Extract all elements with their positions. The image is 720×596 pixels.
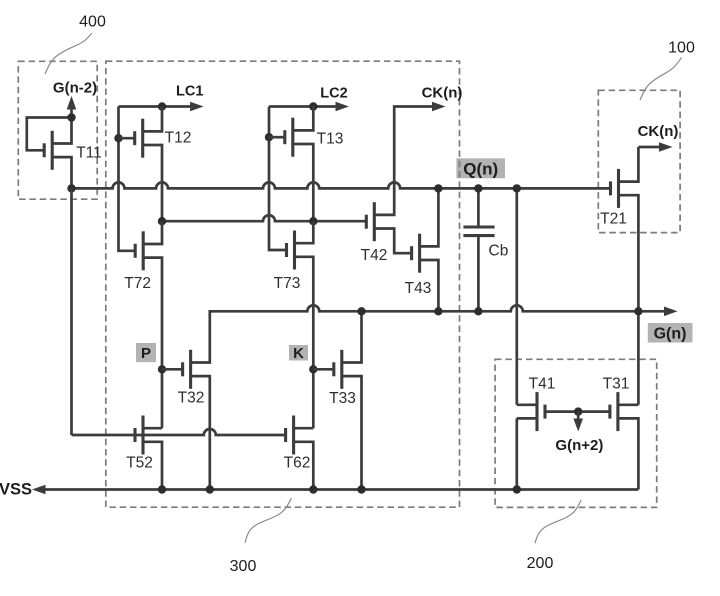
svg-text:T21: T21 [600, 211, 627, 228]
svg-text:T41: T41 [529, 376, 556, 393]
svg-text:T33: T33 [329, 390, 356, 407]
svg-text:T42: T42 [361, 247, 388, 264]
svg-text:LC2: LC2 [320, 86, 347, 102]
node: K net top junction [309, 217, 317, 225]
wire: P-K coupling line with hop [162, 215, 366, 221]
wire: CK(n) output of block 300 [374, 107, 433, 215]
wire: Q rail down to T41 [515, 188, 518, 404]
svg-text:T12: T12 [165, 130, 192, 147]
transistor T52 [135, 416, 162, 490]
transistor T11 [27, 118, 72, 189]
transistor T21 [611, 147, 639, 405]
node: T32 source on VSS rail [206, 485, 214, 493]
wire: T11 drain to G(n-2) arrow [70, 108, 73, 118]
node label Q(n) background [456, 158, 505, 178]
node: T43 source on G(n) line [434, 307, 442, 315]
wire: G(n) output line with hops [191, 305, 666, 362]
wire: CK(n) output of block 100 [638, 146, 661, 149]
svg-text:G(n+2): G(n+2) [555, 437, 603, 454]
node: P net top junction [158, 217, 166, 225]
node: T33 drain on G(n) line [357, 307, 365, 315]
node: T62 source on VSS rail [309, 485, 317, 493]
arrowhead LC1 [190, 102, 204, 112]
node: shared gate of T41/T31 [574, 407, 582, 415]
svg-text:P: P [141, 345, 151, 362]
svg-text:G(n-2): G(n-2) [53, 80, 97, 97]
leader squiggle 200 [535, 500, 581, 543]
node: T33 source on VSS rail [357, 485, 365, 493]
transistor T41 [517, 392, 578, 431]
svg-text:VSS: VSS [0, 481, 32, 499]
wire: VSS rail [45, 488, 639, 491]
node: T13 gate tap [265, 133, 273, 141]
svg-text:T13: T13 [317, 131, 344, 148]
svg-text:T52: T52 [126, 455, 153, 472]
svg-text:300: 300 [230, 558, 257, 575]
svg-text:400: 400 [79, 14, 106, 31]
transistor T33 [313, 311, 361, 489]
svg-text:100: 100 [668, 40, 695, 57]
transistor T13 [269, 107, 313, 222]
dashed block 100 [598, 90, 680, 232]
dashed block 300 [106, 61, 460, 507]
wire: Q(n) rail with hops [72, 182, 611, 188]
svg-text:T73: T73 [274, 275, 301, 292]
node: Cb bottom on G(n) line [474, 307, 482, 315]
node: T11 drain junction [67, 113, 75, 121]
svg-text:T11: T11 [76, 145, 102, 162]
dashed block 200 [495, 359, 657, 507]
transistor T72 [135, 221, 162, 428]
transistor T31 [578, 392, 638, 489]
svg-text:Cb: Cb [489, 243, 509, 260]
transistor T73 [287, 221, 314, 428]
node: Cb top on Q rail [474, 184, 482, 192]
node label P [136, 343, 156, 362]
svg-text:Q(n): Q(n) [463, 160, 498, 179]
node: LC1 junction [158, 102, 166, 110]
capacitor Cb [463, 188, 494, 311]
arrowhead LC2 [336, 102, 350, 112]
wire: T41 source to VSS [515, 418, 518, 489]
arrowhead CK(n) top [432, 102, 446, 112]
leader squiggle 300 [245, 498, 291, 543]
svg-text:LC1: LC1 [176, 83, 203, 99]
svg-text:G(n): G(n) [654, 326, 687, 343]
node: T32 gate tap on P net [158, 365, 166, 373]
node: Q rail to T41 junction [513, 184, 521, 192]
svg-text:200: 200 [527, 555, 554, 572]
arrowhead CK(n) right [659, 142, 673, 152]
leader squiggle 100 [640, 58, 682, 101]
arrowhead VSS [32, 485, 46, 495]
node: T11 source junction [67, 184, 75, 192]
wire: G(n+2) arrow stem [577, 412, 580, 420]
dashed block 400 [18, 61, 97, 199]
wire: LC2 stub [269, 105, 337, 108]
svg-text:CK(n): CK(n) [638, 123, 679, 140]
svg-text:T43: T43 [405, 280, 432, 297]
node: T33 gate tap on K net [309, 365, 317, 373]
svg-text:CK(n): CK(n) [422, 85, 463, 102]
arrowhead G(n-2) [67, 96, 77, 110]
svg-text:T72: T72 [124, 275, 151, 292]
svg-text:T31: T31 [603, 376, 630, 393]
transistor T43 [412, 188, 439, 311]
node: T43 drain on Q rail [434, 184, 442, 192]
node: T52 source on VSS rail [158, 485, 166, 493]
transistor T62 [286, 416, 314, 490]
node: LC2 junction [309, 102, 317, 110]
svg-text:T62: T62 [284, 455, 311, 472]
transistor T42 [366, 202, 411, 253]
wire: T13 gate riser to T73 gate [269, 107, 287, 251]
arrowhead G(n) [664, 307, 678, 317]
wire: LC1 stub [119, 105, 192, 108]
node label G(n) [648, 323, 693, 343]
node: T21 source on G(n) line [634, 307, 642, 315]
svg-text:K: K [293, 345, 304, 362]
leader squiggle 400 [45, 33, 92, 74]
wire: T12 gate riser to T72 gate [119, 107, 136, 251]
svg-text:T32: T32 [178, 390, 205, 407]
node label K [289, 345, 308, 361]
node: T12 gate tap [114, 134, 122, 142]
transistor T12 [119, 107, 163, 222]
wire: T52/T62 gate line with hop [72, 429, 286, 435]
transistor T32 [162, 350, 210, 490]
node: T41 source on VSS rail [513, 485, 521, 493]
wire: T11 source down to T52 gate line [70, 188, 73, 435]
arrowhead G(n+2) [573, 419, 583, 432]
